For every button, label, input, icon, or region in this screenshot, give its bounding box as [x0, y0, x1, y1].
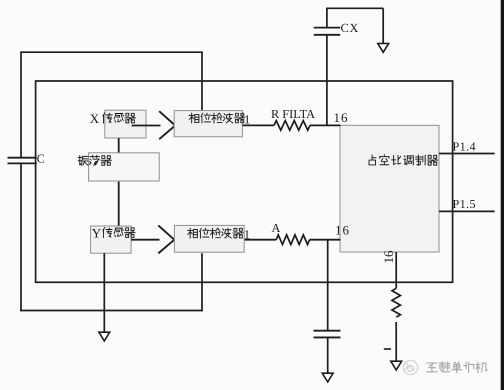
svg-text:C: C [37, 152, 45, 166]
svg-text:CX: CX [341, 21, 359, 35]
svg-text:16: 16 [335, 223, 350, 238]
svg-text:R FILTA: R FILTA [271, 107, 315, 121]
svg-text:X: X [90, 111, 100, 126]
svg-text:16: 16 [381, 250, 396, 264]
svg-text:P1.4: P1.4 [453, 139, 476, 153]
svg-text:P1.5: P1.5 [453, 197, 476, 211]
svg-text:16: 16 [334, 110, 349, 125]
svg-text:Y: Y [92, 226, 102, 241]
svg-text:A: A [272, 221, 281, 235]
svg-text:1: 1 [244, 113, 250, 127]
